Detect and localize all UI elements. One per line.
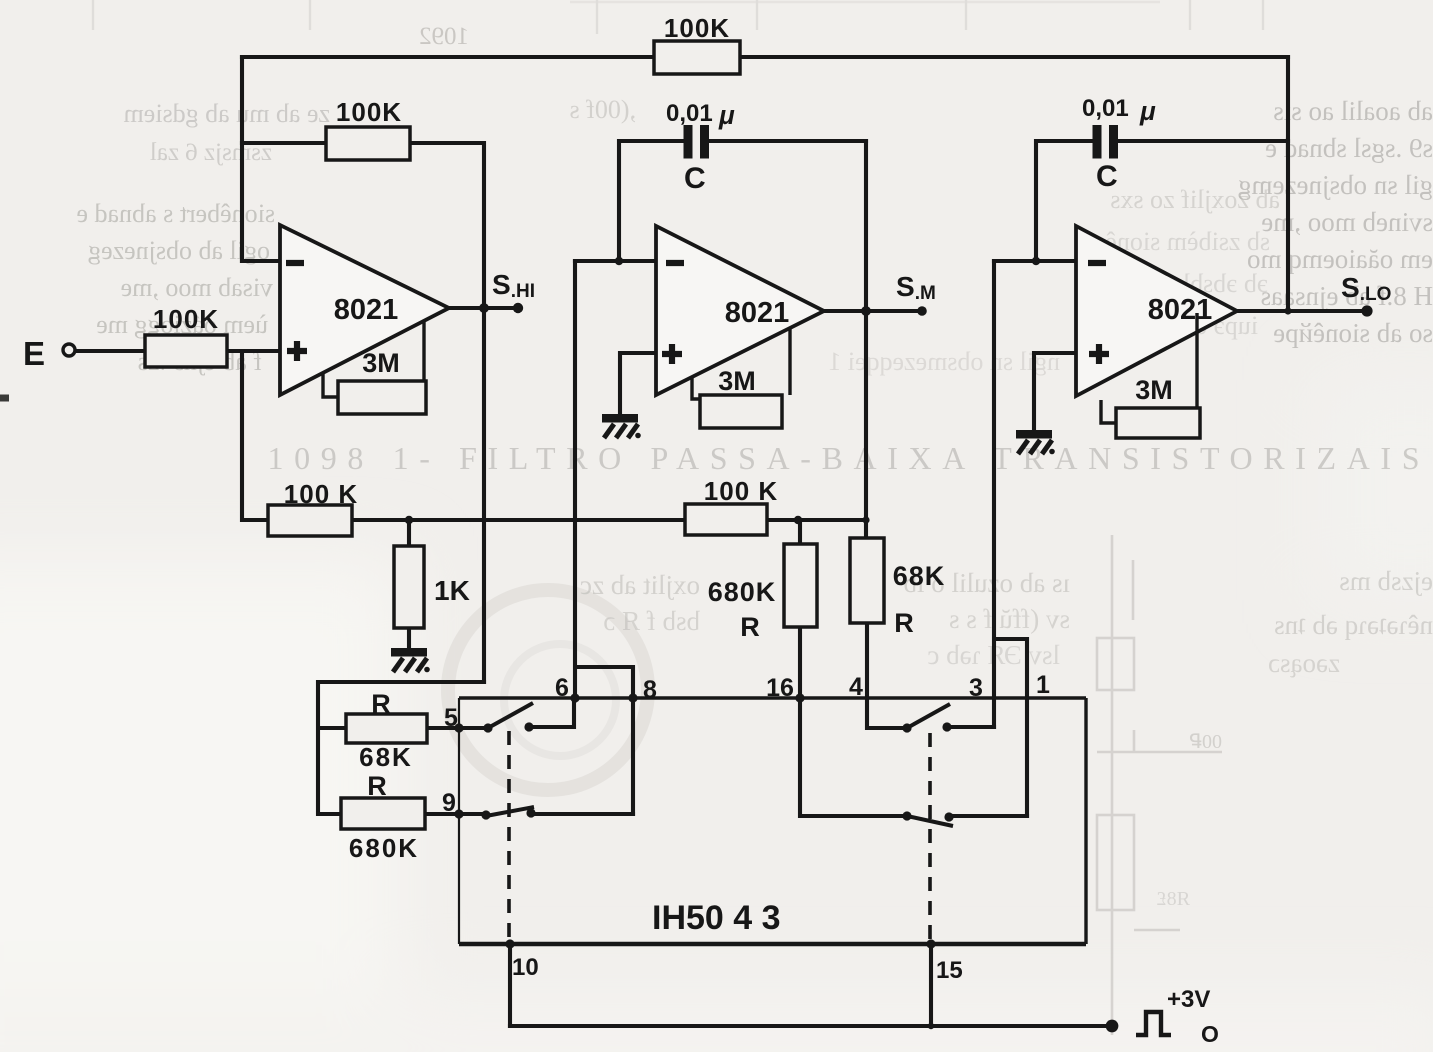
- svg-text:so ab sionêйpe: so ab sionêйpe: [1273, 318, 1433, 348]
- svg-text:ngil sn obsmezeqqei 1: ngil sn obsmezeqqei 1: [828, 347, 1060, 376]
- node: bus meets U2 output vertical: [862, 516, 869, 523]
- svg-text:sionêbert s abnad e: sionêbert s abnad e: [76, 199, 275, 228]
- switch S2a arm: [907, 704, 950, 728]
- svg-text:100K: 100K: [664, 13, 730, 43]
- resistor 3M (U3): [1116, 408, 1200, 438]
- svg-text:μ: μ: [718, 100, 735, 130]
- resistor 3M (U2): [700, 395, 782, 428]
- svg-text:16: 16: [766, 674, 794, 702]
- svg-text:oxjlit ab zc: oxjlit ab zc: [580, 570, 700, 600]
- svg-text:nêɿəʇəɿq əb ʇns: nêɿəʇəɿq əb ʇns: [1274, 610, 1433, 640]
- svg-text:1: 1: [1036, 671, 1050, 699]
- svg-text:0,01: 0,01: [666, 100, 713, 127]
- svg-text:68K: 68K: [359, 742, 413, 772]
- wire: U1 feedback resistor left lead: [242, 141, 326, 145]
- node: 1K tap on bus: [405, 516, 413, 524]
- svg-text:0,01: 0,01: [1082, 95, 1129, 122]
- svg-text:em oăaioemq mo: em oăaioemq mo: [1247, 244, 1433, 274]
- resistor 68K R (right): [850, 538, 884, 623]
- capacitor C2 plates 0.01u: [688, 125, 705, 159]
- svg-text:1K: 1K: [434, 575, 470, 606]
- capacitor C3 left lead: [1036, 141, 1095, 261]
- svg-text:8021: 8021: [1148, 294, 1213, 326]
- wire: 680K left to pin 9 and pivot: [425, 812, 486, 816]
- switch S2a gang/control dashed line to pin 15: [928, 733, 932, 944]
- wire: U2 inverting input: [575, 259, 656, 263]
- switch S1a gang/control dashed line to pin 10: [507, 731, 511, 944]
- switch S2a throw contact: [942, 722, 951, 731]
- svg-text:3M: 3M: [1135, 375, 1173, 405]
- wire: global feedback S.LO to U1 inverting node (top line): [242, 55, 1288, 59]
- svg-text:68K: 68K: [893, 561, 946, 591]
- wire: U3 inverting node vertical to pins 3/1: [994, 261, 1027, 816]
- svg-text:680K: 680K: [349, 833, 419, 863]
- resistor 100K (lower left): [268, 505, 352, 536]
- svg-text:4: 4: [849, 673, 863, 701]
- svg-text:O: O: [1201, 1021, 1219, 1047]
- wire: U1 feedback resistor right lead and drop to output: [410, 143, 484, 682]
- switch S2b pivot contact: [902, 811, 911, 820]
- switch S1a arm: [488, 703, 533, 728]
- wire: U3 inverting input: [994, 259, 1076, 263]
- resistor 100K (lower mid): [685, 504, 767, 535]
- svg-text:ejzsb ms: ejzsb ms: [1339, 566, 1433, 596]
- wire: 68K left to pin 5 and pivot: [427, 726, 488, 730]
- svg-text:,(00f s: ,(00f s: [570, 95, 636, 124]
- svg-text:3M: 3M: [718, 366, 756, 396]
- resistor 680K R (left): [341, 798, 425, 829]
- wire: U3 output to S.LO: [1237, 309, 1367, 313]
- IC U4 IH5043 package outline: [459, 698, 1086, 944]
- svg-text:Я8£: Я8£: [1157, 888, 1190, 910]
- wire: 1K resistor leads: [407, 520, 411, 646]
- U2 minus sign: [666, 260, 684, 266]
- svg-text:1098 1- FILTRO PASSA-BAIXA TRA: 1098 1- FILTRO PASSA-BAIXA TRANSISTORIZA…: [268, 440, 1423, 476]
- wire: U2 output vertical down through bus to 68K R: [864, 141, 868, 538]
- capacitor C3 plates 0.01u: [1097, 125, 1114, 159]
- U2 plus sign: [662, 344, 682, 364]
- wire: 68K R bottom lead through pin 4 to switch S2a pivot: [867, 623, 907, 728]
- svg-text:sb zsibèm sionê: sb zsibèm sionê: [1105, 227, 1270, 256]
- svg-text:3M: 3M: [362, 348, 400, 378]
- svg-text:100K: 100K: [336, 97, 402, 127]
- pin 6 node: [570, 693, 579, 702]
- wire: U1 inverting node vertical: [240, 57, 244, 261]
- svg-text:zəoąsɔ: zəoąsɔ: [1268, 648, 1340, 678]
- svg-text:S.M: S.M: [896, 271, 936, 304]
- svg-text:00₽: 00₽: [1189, 731, 1222, 753]
- switch S1a pivot contact: [483, 723, 492, 732]
- svg-text:10: 10: [512, 954, 539, 981]
- svg-text:S.LO: S.LO: [1341, 272, 1391, 305]
- svg-text:R: R: [367, 771, 387, 801]
- resistor 100K (input E): [145, 335, 227, 367]
- U1 plus sign: [287, 341, 307, 361]
- switch S1b arm: [486, 807, 534, 816]
- wire: U1 inverting input: [242, 259, 280, 263]
- wire: switch S1a throw to pin 6: [529, 698, 574, 727]
- pin 15 node: [926, 939, 935, 948]
- node: S.HI terminal: [513, 303, 523, 313]
- wire: +3V clock line: [510, 1024, 1112, 1028]
- capacitor C2 left lead: [619, 141, 684, 261]
- ground (U2 + input): [602, 414, 641, 438]
- pin 5 node: [454, 723, 463, 732]
- wire: U2 inverting node vertical to pins 6/8: [575, 261, 633, 814]
- resistor 100K (top feedback): [654, 41, 740, 74]
- svg-text:bsb f Я ɔ: bsb f Я ɔ: [603, 606, 700, 636]
- resistor 680K R (right): [784, 544, 817, 627]
- wire: 680K R bottom lead through pin 16 to switch S2b: [800, 627, 907, 816]
- svg-text:μ: μ: [1139, 96, 1156, 126]
- wire: lower bus 100K/1K/100K: [352, 518, 866, 522]
- pin 9 node: [454, 809, 463, 818]
- wire: E node down to lower 100K: [242, 351, 268, 520]
- pin 10 node: [505, 939, 514, 948]
- switch S1b pivot contact: [481, 810, 490, 819]
- node: C3 tap on U3 inverting input: [1032, 257, 1040, 265]
- svg-text:6: 6: [555, 674, 569, 702]
- resistor 3M (U2) leads: [692, 329, 790, 399]
- svg-text:E: E: [23, 335, 45, 372]
- switch S1a throw contact: [524, 722, 533, 731]
- wire: 680K R top lead: [798, 520, 802, 544]
- op-amp U3 8021: [1076, 226, 1237, 396]
- wire: switch S1b throw to pin 8: [531, 812, 633, 816]
- resistor 1K: [394, 546, 424, 628]
- switch S2a pivot contact: [902, 723, 911, 732]
- wire: U3 non-inverting input to ground: [1034, 353, 1076, 430]
- svg-text:s9 .sgsl sbnad e: s9 .sgsl sbnad e: [1265, 133, 1433, 163]
- svg-text:ze ab mu ab gdsiem: ze ab mu ab gdsiem: [124, 99, 331, 128]
- svg-text:C: C: [684, 162, 706, 195]
- resistor 3M (U3) leads: [1101, 313, 1197, 423]
- switch S1b throw contact: [526, 808, 535, 817]
- U1 minus sign: [286, 260, 304, 266]
- wire: U2 non-inverting input to ground: [620, 353, 656, 414]
- svg-text:visab moo ,me: visab moo ,me: [121, 273, 273, 302]
- svg-text:100K: 100K: [153, 304, 219, 334]
- svg-text:ab zoxjlif zo sxs: ab zoxjlif zo sxs: [1110, 185, 1280, 214]
- wire: U2 output to S.M: [824, 309, 922, 313]
- svg-text:15: 15: [936, 957, 963, 984]
- svg-text:+3V: +3V: [1167, 986, 1210, 1013]
- svg-text:S.HI: S.HI: [492, 269, 535, 302]
- svg-text:R: R: [740, 612, 760, 642]
- ground (U3 + input): [1016, 430, 1055, 454]
- wire: left switch rail from S.HI drop: [318, 682, 484, 814]
- node: S.LO corner junction: [1284, 307, 1291, 314]
- svg-text:8021: 8021: [334, 294, 399, 326]
- node: S.M terminal: [917, 306, 927, 316]
- svg-text:R: R: [371, 689, 391, 719]
- wire: switch S2b throw to pin 1: [949, 814, 1027, 818]
- pin 8 node: [628, 693, 637, 702]
- wire: switch S2a throw to pin 3: [947, 725, 994, 729]
- node: +3V clock terminal: [1106, 1020, 1119, 1033]
- node: U1 output junction: [479, 303, 489, 313]
- resistor 3M (U1) leads: [323, 321, 424, 397]
- switch S2b arm: [907, 816, 953, 826]
- svg-text:680K: 680K: [708, 577, 777, 607]
- svg-text:C: C: [1096, 160, 1118, 193]
- wire: input E to U1 + input: [75, 349, 280, 353]
- svg-text:R: R: [894, 608, 914, 638]
- input terminal E (open circle): [63, 344, 75, 356]
- wire: control pin 10 down to clock line: [508, 944, 512, 1026]
- svg-text:sv (ffŭ f s s: sv (ffŭ f s s: [949, 604, 1070, 634]
- node: S.LO terminal: [1361, 305, 1372, 316]
- pin 16 node: [795, 693, 804, 702]
- wire: control pin 15 down to clock line: [929, 944, 933, 1026]
- node: C2 tap on U2 inverting input: [615, 257, 623, 265]
- svg-text:IH50 4 3: IH50 4 3: [652, 899, 781, 937]
- svg-text:3: 3: [969, 674, 983, 702]
- wire: global feedback right vertical down to S.LO output: [1286, 57, 1290, 311]
- switch S2b throw contact: [944, 812, 953, 821]
- svg-text:1092: 1092: [419, 23, 469, 50]
- node: 680K R tap on bus: [794, 516, 802, 524]
- svg-text:8: 8: [643, 676, 657, 704]
- svg-text:ab aoalil ao sis: ab aoalil ao sis: [1273, 96, 1433, 126]
- clock square-pulse symbol: [1136, 1012, 1171, 1035]
- resistor 68K R (left): [346, 714, 427, 743]
- op-amp U2 8021: [656, 226, 824, 395]
- U3 minus sign: [1088, 260, 1106, 266]
- svg-text:8021: 8021: [725, 297, 790, 329]
- node: U2 output junction: [861, 306, 871, 316]
- svg-text:100 K: 100 K: [704, 476, 778, 506]
- svg-text:5: 5: [444, 704, 458, 732]
- node: clock line junction below pin 15: [928, 1023, 934, 1029]
- svg-text:100 K: 100 K: [284, 479, 358, 509]
- ground (1K resistor): [391, 648, 430, 672]
- op-amp U1 8021: [280, 225, 449, 395]
- svg-text:9: 9: [442, 789, 456, 817]
- resistor 100K (U1 local feedback): [326, 127, 410, 160]
- capacitor C3 right lead to feedback vertical: [1118, 139, 1288, 143]
- resistor 3M (U1): [338, 381, 426, 414]
- U3 plus sign: [1089, 344, 1109, 364]
- wire: U1 output to S.HI: [449, 306, 518, 310]
- capacitor C2 right lead: [709, 139, 866, 143]
